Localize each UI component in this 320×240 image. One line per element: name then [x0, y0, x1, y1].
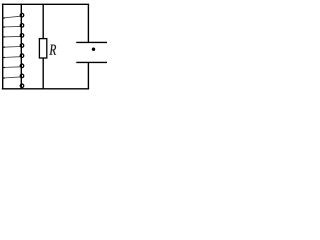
inductor L turn 5: [2, 54, 24, 58]
inductor L turn 4: [2, 44, 24, 48]
inductor L turn 7: [2, 74, 24, 78]
capacitor C bottom plate: [76, 61, 107, 63]
wire resistor bottom lead: [42, 58, 44, 89]
inductor L turn 8 curl (last turn closes via bottom wire): [20, 84, 24, 88]
label R: [49, 45, 56, 55]
wire bottom (from coil bottom to right branch): [2, 88, 89, 90]
wire right bottom (capacitor down to bottom wire): [87, 62, 89, 88]
inductor L turn 6: [2, 64, 24, 68]
resistor R body: [39, 39, 46, 58]
inductor L left bar: [2, 4, 4, 90]
inductor L turn 1: [2, 13, 24, 18]
wire right top (top wire corner down to capacitor): [87, 4, 89, 42]
wire resistor top lead: [42, 4, 44, 38]
capacitor C top plate: [76, 41, 107, 43]
inductor L right bar: [20, 4, 22, 90]
inductor L turn 3: [2, 34, 24, 38]
inductor L turn 2: [2, 24, 24, 28]
wire top (from coil top to right branch): [2, 3, 89, 5]
node dot between capacitor plates: [92, 48, 95, 51]
